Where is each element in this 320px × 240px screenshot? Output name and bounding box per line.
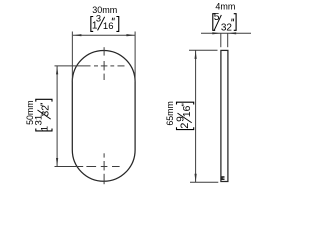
arrow 4mm right xyxy=(228,32,237,34)
arrow 30mm right xyxy=(126,34,134,36)
svg-text:16: 16 xyxy=(103,21,114,32)
svg-text:65mm: 65mm xyxy=(165,101,175,125)
dimension line 4mm xyxy=(201,32,251,34)
dimension line 50mm xyxy=(56,66,58,167)
label [1 3/16"] xyxy=(91,14,119,32)
svg-text:4mm: 4mm xyxy=(215,2,235,12)
label [2 9/16"] (rotated) xyxy=(175,102,193,129)
arrow 65mm top xyxy=(195,50,197,59)
svg-text:16: 16 xyxy=(182,105,193,117)
svg-text:3: 3 xyxy=(96,14,101,24)
svg-text:32: 32 xyxy=(221,22,233,33)
dimension line 65mm xyxy=(195,50,197,182)
small detail mark bottom xyxy=(222,176,225,180)
extension line 65mm bottom xyxy=(190,181,218,183)
extension line 4mm right xyxy=(227,33,229,47)
arrow 30mm left xyxy=(73,34,82,36)
extension line 65mm top xyxy=(189,49,218,51)
svg-text:1: 1 xyxy=(40,126,51,131)
svg-text:32: 32 xyxy=(41,105,52,117)
dimension line 30mm xyxy=(73,34,135,36)
arrow 50mm bottom xyxy=(56,158,58,167)
front view obround outline xyxy=(72,51,135,182)
center mark top: vertical dashes xyxy=(103,47,105,80)
center mark bottom: vertical dashes xyxy=(103,153,105,184)
extension line 4mm left xyxy=(220,33,222,47)
svg-text:2: 2 xyxy=(179,123,191,129)
extension line 30mm left xyxy=(71,32,73,82)
side view rectangle xyxy=(221,50,228,181)
label [5/32"] xyxy=(213,12,236,33)
arrow 4mm left xyxy=(212,32,221,34)
extension line 30mm right xyxy=(134,32,136,82)
arrow 65mm bottom xyxy=(195,174,197,183)
center mark bottom: horizontal dashes xyxy=(55,166,120,168)
arrow 50mm top xyxy=(56,66,58,75)
label [1 31/32"] (rotated) xyxy=(33,99,52,131)
center mark top: horizontal dashes xyxy=(55,65,125,67)
